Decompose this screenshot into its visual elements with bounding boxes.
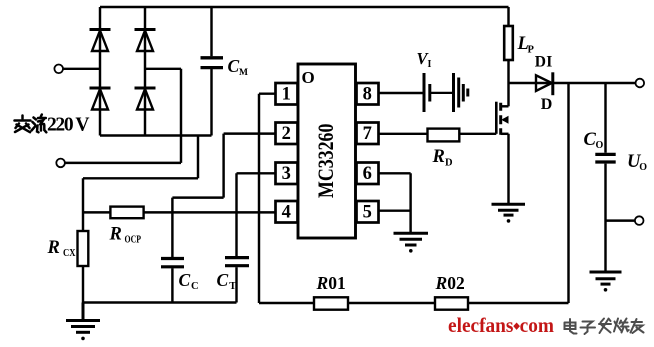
svg-text:2: 2 xyxy=(282,124,291,144)
pin 5 box xyxy=(357,201,379,223)
svg-text:MC33260: MC33260 xyxy=(313,124,338,199)
hanzi 流 (of 交流220V) xyxy=(32,115,47,133)
wire pin3 net xyxy=(237,173,276,256)
svg-text:O: O xyxy=(596,140,604,151)
svg-text:DI: DI xyxy=(535,54,553,71)
diode D2 bridge upper-right xyxy=(135,30,156,52)
wire bridge right midpoint to riser xyxy=(145,69,181,163)
capacitor CO xyxy=(595,154,615,272)
capacitor CM xyxy=(201,7,224,136)
svg-text:O: O xyxy=(302,68,315,87)
svg-text:R: R xyxy=(47,238,60,258)
resistor R02 xyxy=(435,297,468,309)
svg-text:C: C xyxy=(179,270,191,290)
wire pin1 feedback net xyxy=(259,94,314,303)
ground G2 xyxy=(394,233,429,252)
ground G1 xyxy=(66,303,100,341)
svg-text:8: 8 xyxy=(363,85,372,105)
svg-text:R: R xyxy=(432,147,445,167)
diode D4 bridge lower-right xyxy=(135,88,156,110)
transistor Q1 MOSFET xyxy=(496,83,508,204)
wire R01 to R02 xyxy=(348,302,435,304)
watermark elecfans.com xyxy=(448,313,554,337)
pin 2 box xyxy=(276,123,298,145)
pin 4 box xyxy=(276,201,298,223)
svg-text:M: M xyxy=(239,68,248,78)
svg-text:OCP: OCP xyxy=(125,235,142,246)
svg-text:D: D xyxy=(445,158,453,169)
svg-text:C: C xyxy=(217,270,229,290)
inductor LP xyxy=(504,7,513,83)
wire RCX to ground rail xyxy=(82,266,84,303)
svg-text:R02: R02 xyxy=(435,273,465,293)
resistor R01 xyxy=(314,297,348,309)
svg-text:R01: R01 xyxy=(316,273,346,293)
text labels group xyxy=(47,34,648,293)
ground G4 xyxy=(590,272,622,292)
pin 7 box xyxy=(357,123,379,145)
svg-text:C: C xyxy=(191,281,199,292)
svg-text:7: 7 xyxy=(363,124,372,144)
svg-text:R: R xyxy=(109,225,122,245)
wire AC input 1 xyxy=(63,68,100,70)
IC U1 MC33260 body xyxy=(298,64,356,238)
diode D3 bridge lower-left xyxy=(90,88,111,110)
pin 1 box xyxy=(276,83,298,105)
svg-text:T: T xyxy=(229,281,236,292)
wire AC input 2 xyxy=(65,162,181,164)
wire pin6 pin5 to ground xyxy=(379,173,411,233)
wire pin8 to battery xyxy=(379,92,425,94)
wire RD to gate xyxy=(459,133,496,135)
wire left bridge branch xyxy=(99,7,101,136)
svg-text:elecfans◆com: elecfans◆com xyxy=(448,313,554,337)
wire top rail xyxy=(100,6,509,8)
svg-text:220 V: 220 V xyxy=(47,114,90,135)
battery VI xyxy=(424,73,468,112)
svg-text:CX: CX xyxy=(63,248,76,259)
svg-text:I: I xyxy=(428,59,432,70)
resistor ROCP xyxy=(110,207,143,219)
svg-text:6: 6 xyxy=(363,164,372,184)
wire right bridge branch xyxy=(144,7,146,136)
svg-text:3: 3 xyxy=(282,164,291,184)
resistor RCX xyxy=(78,231,89,266)
svg-text:P: P xyxy=(528,45,535,56)
diode D1 bridge upper-left xyxy=(90,30,111,52)
svg-text:O: O xyxy=(639,162,647,173)
terminal AC input 1 xyxy=(54,65,63,74)
svg-text:D: D xyxy=(541,96,553,113)
watermark hanzi 电子发烧友 xyxy=(565,319,644,335)
wire CO branch xyxy=(604,83,606,153)
resistor RD xyxy=(428,129,460,142)
wire drain node to diode xyxy=(509,82,535,84)
wire ground rail xyxy=(83,301,237,303)
capacitor CT xyxy=(225,258,249,303)
wire pin4 net xyxy=(83,211,276,213)
pin 6 box xyxy=(357,163,379,185)
svg-text:C: C xyxy=(228,56,240,76)
wire bridge bottom rail xyxy=(100,134,212,136)
pin 3 box xyxy=(276,163,298,185)
wire pin7 to RD xyxy=(379,133,428,135)
wire diode to output xyxy=(535,82,636,84)
terminal output - xyxy=(635,216,644,225)
hanzi 交 (of 交流220V) xyxy=(15,116,31,133)
pin 8 box xyxy=(357,83,379,105)
wire output lower branch xyxy=(606,219,636,221)
wire R02 to output riser xyxy=(468,83,569,303)
terminal output + xyxy=(636,79,645,88)
svg-text:1: 1 xyxy=(282,85,291,105)
wire DC negative tap xyxy=(83,136,198,232)
terminal AC input 2 xyxy=(56,159,65,168)
wire pin2 net xyxy=(172,134,275,257)
svg-text:5: 5 xyxy=(363,203,372,223)
svg-text:4: 4 xyxy=(282,203,291,223)
capacitor CC xyxy=(161,259,184,303)
diode DI xyxy=(536,72,553,95)
ground G3 xyxy=(492,204,526,223)
